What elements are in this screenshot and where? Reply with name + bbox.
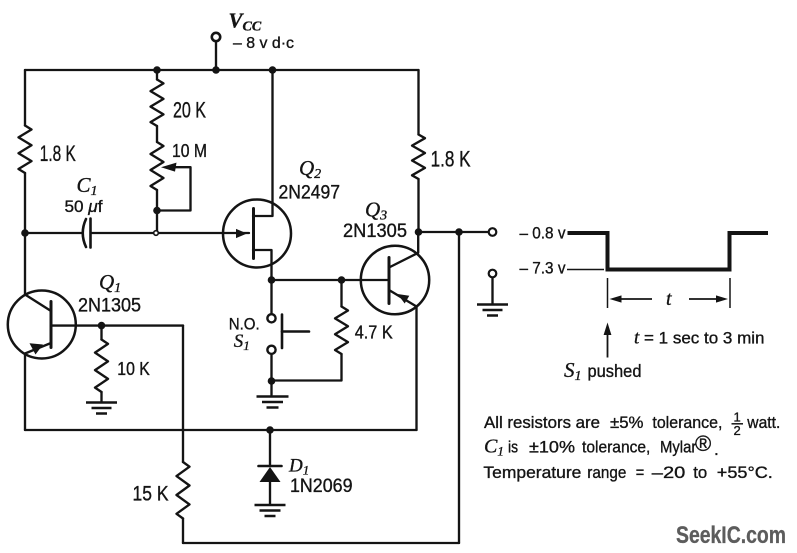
resistor 1.8K right	[412, 135, 425, 180]
resistor 4.7K	[335, 307, 348, 355]
waveform: dimension line right	[729, 278, 731, 308]
arrowhead: Q3 emitter (PNP)	[398, 294, 410, 304]
wire: 4.7K top lead	[340, 280, 342, 307]
wire: D1 bottom lead	[269, 481, 271, 504]
terminal: S1 upper contact	[267, 314, 275, 322]
capacitor C1 plates	[83, 219, 86, 247]
svg-text:– 8 v d·c: – 8 v d·c	[233, 35, 294, 52]
annotation: S1 pushed up-arrow	[607, 332, 609, 358]
svg-text:VCC: VCC	[229, 9, 262, 35]
wire: pot wiper link	[157, 167, 191, 210]
wire: switch S1 upper lead	[270, 280, 272, 314]
svg-text:2: 2	[734, 423, 741, 438]
waveform: dimension arrow right	[689, 298, 722, 300]
svg-text:.: .	[714, 440, 719, 459]
svg-text:– 7.3 v: – 7.3 v	[520, 259, 566, 278]
junction: top rail / Vcc	[212, 66, 220, 74]
svg-text:tolerance,: tolerance,	[582, 438, 650, 457]
svg-text:C1: C1	[484, 436, 504, 459]
wire: bottom rail	[25, 429, 417, 431]
svg-text:±10%: ±10%	[529, 438, 575, 457]
transistor Q3 base bar	[388, 258, 391, 304]
diode D1 cathode bar	[259, 465, 282, 468]
ground symbol under D1	[255, 505, 286, 516]
ground symbol under 10K	[86, 403, 117, 414]
wire: Q3 emitter down to bottom rail	[415, 307, 417, 431]
resistor 20K	[151, 80, 164, 127]
resistor 15K	[177, 462, 190, 519]
svg-text:Q2: Q2	[299, 156, 321, 182]
potentiometer 10M	[151, 142, 164, 190]
waveform: dimension line left	[607, 278, 609, 308]
svg-text:2N1305: 2N1305	[343, 221, 407, 242]
svg-text:t: t	[666, 288, 672, 310]
waveform: pulse trace	[568, 233, 769, 270]
diode D1 triangle	[260, 467, 281, 482]
wire: 10K top lead	[100, 326, 102, 340]
svg-text:–20: –20	[652, 463, 686, 482]
terminal: Vcc open circle	[212, 33, 220, 41]
wire: top supply rail	[25, 69, 419, 71]
svg-text:1N2069: 1N2069	[290, 476, 353, 497]
switch S1 pushbutton actuator	[281, 315, 284, 349]
svg-text:pushed: pushed	[588, 361, 642, 381]
svg-text:=: =	[636, 463, 645, 482]
svg-text:Mylar: Mylar	[660, 438, 697, 457]
junction: top rail / 20K	[153, 66, 161, 74]
svg-text:®: ®	[695, 431, 711, 456]
wire: gate line from C1 to Q2 gate	[91, 232, 249, 234]
resistor R 1.8K left	[19, 126, 32, 174]
svg-text:+55°C.: +55°C.	[717, 463, 773, 482]
junction: pot wiper / 10M bottom	[153, 207, 161, 215]
ground symbol under S1	[257, 397, 289, 408]
resistor 10K	[95, 340, 108, 393]
svg-text:±5%: ±5%	[610, 413, 644, 432]
wire: switch S1 lower lead	[270, 355, 272, 382]
wire: left rail lower (Q1 emitter to bottom rail)	[24, 354, 26, 431]
arrowhead: Q1 emitter (PNP)	[30, 343, 44, 354]
svg-text:Q1: Q1	[99, 270, 121, 296]
transistor Q2 body circle	[223, 200, 291, 268]
wire: pot junction down to C1 node	[156, 211, 158, 234]
wire: 15K top lead from Q1 base line	[182, 326, 184, 462]
wire: D1 top lead	[269, 430, 271, 465]
svg-text:Temperature: Temperature	[483, 463, 581, 482]
junction: C1 right node (small open)	[154, 231, 159, 236]
svg-text:10 M: 10 M	[172, 141, 207, 161]
svg-text:20 K: 20 K	[173, 98, 206, 123]
wire: Q3 collector lead up to output node	[389, 232, 418, 268]
wire: Q2 drain lead	[253, 70, 273, 216]
wire: feedback bottom run	[183, 542, 459, 544]
svg-text:– 0.8 v: – 0.8 v	[520, 224, 566, 243]
wire: Q3 base lead	[342, 279, 390, 281]
junction: Q3 base / 4.7K	[338, 276, 346, 284]
wire: Q2 source lead	[253, 250, 272, 280]
junction: bottom rail / D1	[266, 426, 274, 434]
wire: 15K bottom lead	[182, 519, 184, 544]
wire: feedback line down	[458, 232, 460, 543]
transistor Q1 body circle	[8, 291, 76, 359]
transistor Q1 base bar	[50, 302, 53, 348]
svg-text:1.8 K: 1.8 K	[431, 147, 471, 172]
svg-text:4.7 K: 4.7 K	[355, 323, 393, 343]
svg-text:t = 1 sec to 3 min: t = 1 sec to 3 min	[634, 328, 764, 349]
svg-text:15 K: 15 K	[133, 483, 169, 506]
terminal: ground reference open circle	[489, 270, 497, 278]
svg-text:10 K: 10 K	[117, 359, 150, 379]
arrowhead: pot 10M wiper	[161, 163, 177, 172]
wire: 20K to 10M link	[156, 126, 158, 142]
junction: left rail / C1	[21, 229, 29, 237]
wire: Q1 collector lead	[25, 295, 51, 312]
junction: Q2 source node	[268, 276, 276, 284]
wire: ground terminal lead	[491, 278, 493, 305]
wire: output line	[419, 231, 490, 233]
waveform: dimension arrow left	[616, 298, 652, 300]
svg-text:watt.: watt.	[746, 413, 780, 432]
svg-text:D1: D1	[288, 456, 309, 478]
terminal: output open circle	[489, 228, 497, 236]
wire: Q1 emitter lead	[25, 343, 51, 354]
svg-text:1.8 K: 1.8 K	[40, 141, 76, 166]
junction: output node at Q3 collector	[415, 228, 423, 236]
wire: left rail upper (collector side)	[24, 70, 26, 126]
wire: S1 node to ground	[270, 381, 272, 395]
svg-text:50 μf: 50 μf	[65, 197, 103, 216]
junction: S1 bottom node	[268, 377, 276, 385]
transistor Q2 channel bar	[252, 209, 255, 259]
wire: Vcc terminal lead	[215, 42, 217, 70]
svg-text:C1: C1	[77, 173, 98, 199]
arrowhead: Q2 gate	[236, 229, 247, 238]
wire: 1.8K right bottom lead	[417, 179, 419, 232]
wire: 10M bottom lead	[156, 190, 158, 211]
junction: Q1 base / 10K	[98, 322, 106, 330]
svg-text:S1: S1	[234, 331, 250, 353]
svg-text:All resistors are: All resistors are	[484, 413, 600, 432]
svg-text:2N2497: 2N2497	[279, 183, 341, 204]
wire: Q2 source to Q3 base	[272, 279, 342, 281]
svg-text:tolerance,: tolerance,	[652, 413, 722, 432]
svg-text:is: is	[508, 438, 518, 457]
svg-text:2N1305: 2N1305	[78, 296, 141, 317]
terminal: S1 lower contact	[267, 346, 275, 354]
wire: S1 node to 4.7K bottom	[272, 354, 342, 381]
junction: output / feedback	[455, 228, 463, 236]
wire: Q1 base line to 15K column	[51, 324, 183, 326]
waveform: thin lead line at -7.3 level	[567, 269, 604, 271]
wire: 20K top lead	[156, 70, 158, 80]
ground symbol at output terminal	[477, 305, 508, 316]
wire: 10K bottom lead to ground	[100, 392, 102, 402]
wire: Q3 emitter lead	[389, 290, 417, 307]
svg-text:range: range	[587, 463, 626, 482]
wire: gate line C1 left segment	[25, 232, 82, 234]
svg-text:Q3: Q3	[365, 198, 387, 224]
junction: top rail / Q2 drain	[269, 66, 277, 74]
wire: left rail to Q1 collector	[24, 173, 26, 295]
svg-text:to: to	[693, 463, 707, 482]
svg-text:S1: S1	[564, 358, 582, 384]
transistor Q3 body circle	[361, 246, 429, 314]
wire: right branch from top rail	[417, 70, 419, 135]
svg-text:SeekIC.com: SeekIC.com	[676, 522, 786, 549]
